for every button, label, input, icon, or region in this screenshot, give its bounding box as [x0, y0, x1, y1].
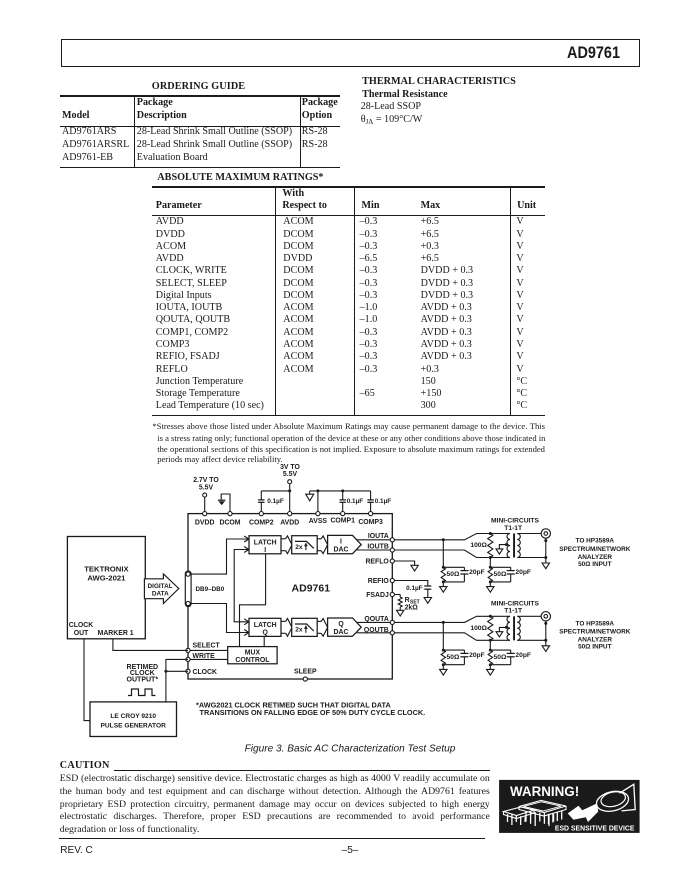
- wire QOUTA: [357, 621, 393, 623]
- wire IOUTA: [357, 539, 393, 541]
- node connector chevron: [286, 619, 292, 637]
- wire secondary bottom (I): [517, 557, 546, 559]
- resistor R 50 ohm / capacitor C 20pF shunt (I x=443.3): [440, 540, 485, 593]
- wire secondary bottom (Q): [517, 639, 546, 641]
- svg-text:5.5V: 5.5V: [283, 471, 298, 478]
- ground AVSS: [306, 491, 314, 501]
- junction secondary bottom (Q): [544, 639, 547, 642]
- svg-text:TO HP3589A: TO HP3589A: [576, 621, 615, 628]
- dac I DAC: [328, 535, 362, 553]
- svg-text:I: I: [264, 547, 266, 554]
- transformer T1-1T core (I): [513, 534, 515, 558]
- filter 2x interpolation Q: [292, 618, 318, 636]
- wire bus top to LATCH I input: [190, 539, 248, 574]
- node connector chevron: [321, 619, 327, 637]
- pin FSADJ: [366, 592, 394, 599]
- transformer T1-1T core (Q): [513, 616, 515, 640]
- svg-text:50Ω: 50Ω: [494, 571, 507, 578]
- wire LATCH Q to 2x filter: [281, 620, 286, 622]
- wire IOUTA to transformer: [394, 534, 510, 540]
- wire latch clock link: [234, 550, 248, 622]
- junction AVSS: [316, 489, 319, 492]
- ground transformer center tap (I): [496, 543, 508, 554]
- svg-text:SPECTRUM/NETWORK: SPECTRUM/NETWORK: [559, 629, 631, 636]
- ground connector (Q): [542, 646, 549, 652]
- svg-text:LATCH: LATCH: [254, 622, 277, 629]
- svg-text:2x: 2x: [295, 626, 303, 633]
- svg-text:DAC: DAC: [334, 546, 349, 553]
- resistor R 50 ohm / capacitor C 20pF shunt (Q x=490.3): [487, 640, 531, 675]
- wire connector shell to ground (I): [544, 538, 547, 563]
- svg-text:20pF: 20pF: [469, 569, 485, 576]
- node connector chevron: [286, 536, 292, 554]
- wire bus bottom to LATCH Q input: [190, 604, 248, 633]
- svg-text:DAC: DAC: [334, 629, 349, 636]
- pin REFLO: [365, 559, 394, 566]
- svg-text:MINI-CIRCUITS: MINI-CIRCUITS: [491, 601, 539, 608]
- latch LATCH Q: [249, 618, 281, 636]
- wire QOUTA to transformer: [394, 616, 510, 622]
- wire QOUTB to transformer: [394, 633, 510, 641]
- pin REFIO: [368, 578, 395, 585]
- capacitor C 0.1uF at COMP3: [367, 491, 391, 514]
- note AWG2021 retiming footnote: [196, 700, 425, 717]
- node LATCH Q data input arrow: [244, 630, 249, 636]
- pin CLOCK: [186, 669, 217, 676]
- svg-text:MARKER 1: MARKER 1: [98, 630, 134, 637]
- svg-text:50Ω: 50Ω: [494, 654, 507, 661]
- junction 100 ohm top (Q): [489, 615, 492, 618]
- svg-text:OUT: OUT: [74, 630, 89, 637]
- block arrow DIGITAL DATA: [144, 574, 178, 604]
- transformer T1-1T secondary (Q): [517, 616, 520, 640]
- connector coax output (I): [541, 529, 550, 538]
- pin QOUTB: [364, 627, 394, 635]
- pin COMP1: [330, 511, 355, 524]
- svg-text:LATCH: LATCH: [254, 540, 277, 547]
- svg-text:COMP3: COMP3: [358, 519, 383, 526]
- pin WRITE: [186, 653, 215, 662]
- svg-text:TEKTRONIX: TEKTRONIX: [84, 565, 129, 574]
- pin DB9-DB0 bus: [185, 571, 224, 607]
- svg-text:0.1µF: 0.1µF: [406, 585, 423, 592]
- wire COMP2 decoupling rail: [261, 490, 289, 492]
- transformer T1-1T primary (Q): [507, 616, 510, 640]
- junction 100 ohm top (I): [489, 532, 492, 535]
- pin AVSS: [309, 511, 328, 525]
- svg-text:LE CROY 9210: LE CROY 9210: [110, 713, 156, 720]
- wire AWG clock out to pulse generator: [84, 639, 90, 721]
- wire retimed clock to WRITE: [166, 659, 188, 702]
- junction AVDD rail: [288, 489, 291, 492]
- svg-text:0.1µF: 0.1µF: [347, 498, 364, 505]
- svg-text:DB9–DB0: DB9–DB0: [196, 586, 225, 593]
- connector coax output (Q): [541, 612, 550, 621]
- pin DCOM: [219, 511, 240, 526]
- pin IOUTA: [368, 533, 395, 542]
- svg-text:QOUTB: QOUTB: [364, 627, 389, 634]
- pin COMP2: [249, 511, 274, 526]
- svg-text:FSADJ: FSADJ: [366, 592, 389, 599]
- pin DVDD: [195, 511, 215, 526]
- transformer T1-1T primary (I): [507, 534, 510, 558]
- pin COMP3: [358, 511, 383, 525]
- label MINI-CIRCUITS T1-1T (Q): [491, 601, 539, 615]
- svg-text:AVSS: AVSS: [309, 518, 328, 525]
- svg-text:MUX: MUX: [245, 650, 261, 657]
- wire MUX CONTROL to LATCH I clock: [240, 554, 266, 647]
- svg-text:I: I: [340, 538, 342, 545]
- svg-text:SLEEP: SLEEP: [294, 669, 317, 676]
- node connector chevron: [321, 536, 327, 554]
- svg-text:QOUTA: QOUTA: [364, 616, 388, 623]
- svg-text:REFLO: REFLO: [365, 559, 389, 566]
- svg-text:2x: 2x: [295, 544, 303, 551]
- junction IOUTA 50 ohm tap: [442, 538, 445, 541]
- svg-text:DCOM: DCOM: [219, 519, 240, 526]
- svg-text:PULSE GENERATOR: PULSE GENERATOR: [101, 722, 167, 729]
- svg-text:DATA: DATA: [152, 591, 169, 598]
- svg-text:50Ω INPUT: 50Ω INPUT: [578, 561, 611, 568]
- junction 100 ohm bottom (I): [489, 556, 492, 559]
- svg-text:AVDD: AVDD: [280, 519, 299, 526]
- label TO HP3589A analyzer (I): [559, 538, 631, 568]
- resistor R 50 ohm / capacitor C 20pF shunt (Q x=443.3): [440, 622, 485, 675]
- filter 2x interpolation I: [292, 536, 318, 554]
- ground REFLO: [394, 561, 418, 571]
- svg-text:0.1µF: 0.1µF: [267, 498, 284, 505]
- svg-text:Q: Q: [338, 621, 344, 628]
- svg-text:IOUTB: IOUTB: [367, 544, 388, 551]
- junction QOUTA 50 ohm tap: [442, 621, 445, 624]
- svg-text:Q: Q: [263, 630, 269, 637]
- wire secondary to connector (I): [517, 533, 541, 535]
- wire IOUTB: [357, 549, 393, 551]
- svg-text:WRITE: WRITE: [193, 653, 216, 660]
- svg-text:TRANSITIONS ON FALLING EDGE OF: TRANSITIONS ON FALLING EDGE OF 50% DUTY …: [200, 708, 426, 717]
- icon lightning bolt: [568, 803, 599, 822]
- icon pointing finger: [594, 784, 635, 814]
- capacitor C 0.1uF at COMP2: [258, 491, 284, 514]
- ground connector (I): [542, 563, 549, 569]
- transformer T1-1T secondary (I): [517, 534, 520, 558]
- svg-text:IOUTA: IOUTA: [368, 533, 389, 540]
- pin AVDD: [280, 511, 299, 526]
- svg-text:CLOCK: CLOCK: [193, 669, 218, 676]
- wire DVDD supply: [204, 497, 206, 513]
- svg-text:50Ω INPUT: 50Ω INPUT: [578, 644, 611, 651]
- instrument LE CROY 9210 PULSE GENERATOR: [90, 702, 177, 737]
- wire SELECT to MUX: [188, 649, 228, 651]
- svg-text:COMP2: COMP2: [249, 519, 274, 526]
- pin SLEEP: [294, 669, 317, 682]
- wire LATCH I to 2x filter: [281, 538, 286, 540]
- wire IOUTB to transformer: [394, 550, 510, 558]
- label TO HP3589A analyzer (Q): [559, 621, 631, 651]
- svg-text:20pF: 20pF: [469, 652, 485, 659]
- capacitor C 0.1uF at REFIO: [394, 581, 431, 604]
- svg-text:CLOCK: CLOCK: [69, 622, 94, 629]
- icon DIP package large: [519, 801, 566, 827]
- svg-text:CONTROL: CONTROL: [235, 657, 269, 664]
- svg-text:20pF: 20pF: [515, 652, 531, 659]
- svg-text:DVDD: DVDD: [195, 519, 215, 526]
- svg-text:T1-1T: T1-1T: [504, 608, 523, 615]
- ground transformer center tap (Q): [496, 626, 508, 637]
- svg-text:SPECTRUM/NETWORK: SPECTRUM/NETWORK: [559, 546, 631, 553]
- supply terminal 2.7V TO 5.5V: [193, 477, 219, 497]
- svg-text:100Ω: 100Ω: [470, 625, 487, 632]
- svg-text:REFIO: REFIO: [368, 578, 390, 585]
- svg-text:MINI-CIRCUITS: MINI-CIRCUITS: [491, 518, 539, 525]
- node LATCH Q clock input arrow: [244, 619, 249, 625]
- ESD warning box: [499, 780, 639, 833]
- svg-text:COMP1: COMP1: [330, 517, 355, 524]
- junction retimed clock: [164, 670, 167, 673]
- IC U1 AD9761 block outline: [188, 514, 392, 679]
- node LATCH I clock input arrow: [244, 547, 249, 553]
- svg-text:100Ω: 100Ω: [470, 542, 487, 549]
- dac Q DAC: [328, 618, 362, 636]
- wire AVSS ground rail: [310, 491, 371, 514]
- svg-text:AD9761: AD9761: [292, 582, 331, 594]
- ground DCOM digital ground: [218, 494, 230, 514]
- wire WRITE to MUX: [188, 658, 228, 660]
- capacitor C 0.1uF at COMP1: [340, 491, 364, 514]
- wire 2x filter to I DAC: [317, 538, 321, 540]
- wire QOUTB: [357, 632, 393, 634]
- wire MUX CONTROL to LATCH Q: [263, 636, 265, 646]
- label MINI-CIRCUITS T1-1T (I): [491, 518, 539, 532]
- wire 2x filter to Q DAC: [317, 620, 321, 622]
- svg-text:DIGITAL: DIGITAL: [148, 583, 173, 590]
- svg-text:AWG-2021: AWG-2021: [87, 574, 126, 583]
- wire AWG marker 1 to SELECT: [113, 639, 188, 651]
- svg-text:T1-1T: T1-1T: [504, 525, 523, 532]
- junction secondary bottom (I): [544, 556, 547, 559]
- svg-text:5.5V: 5.5V: [199, 485, 214, 492]
- wire AVDD supply: [289, 484, 291, 514]
- svg-text:20pF: 20pF: [515, 569, 531, 576]
- resistor R 50 ohm / capacitor C 20pF shunt (I x=490.3): [487, 558, 531, 593]
- block MUX CONTROL: [228, 647, 277, 664]
- svg-text:Figure 3. Basic AC Characteriz: Figure 3. Basic AC Characterization Test…: [245, 744, 456, 755]
- wire retimed clock to CLOCK: [166, 670, 188, 672]
- svg-text:ESD SENSITIVE DEVICE: ESD SENSITIVE DEVICE: [555, 825, 635, 832]
- label RETIMED CLOCK OUTPUT*: [127, 664, 159, 684]
- resistor RSET 2k ohm at FSADJ: [394, 595, 419, 617]
- svg-text:SELECT: SELECT: [193, 643, 221, 650]
- supply terminal 3V TO 5.5V: [280, 464, 300, 484]
- wire connector shell to ground (Q): [544, 621, 547, 646]
- pin SELECT: [186, 643, 221, 653]
- clock waveform symbol: [128, 689, 156, 696]
- svg-text:50Ω: 50Ω: [447, 571, 460, 578]
- pin QOUTA: [364, 616, 394, 625]
- junction 100 ohm bottom (Q): [489, 639, 492, 642]
- svg-text:OUTPUT*: OUTPUT*: [127, 677, 159, 684]
- svg-text:50Ω: 50Ω: [447, 654, 460, 661]
- svg-text:2.7V TO: 2.7V TO: [193, 477, 219, 484]
- pin IOUTB: [367, 544, 394, 553]
- instrument TEKTRONIX AWG-2021: [67, 537, 145, 639]
- node LATCH I data input arrow: [244, 536, 249, 542]
- icon DIP package small: [504, 807, 535, 825]
- svg-text:0.1µF: 0.1µF: [375, 498, 392, 505]
- svg-text:2kΩ: 2kΩ: [405, 605, 419, 612]
- junction COMP1: [341, 489, 344, 492]
- svg-text:R: R: [405, 597, 410, 604]
- resistor R 100 ohm (I): [488, 534, 493, 558]
- svg-text:TO HP3589A: TO HP3589A: [576, 538, 615, 545]
- wire secondary to connector (Q): [517, 615, 541, 617]
- resistor R 100 ohm (Q): [488, 616, 493, 640]
- latch LATCH I: [249, 536, 281, 554]
- svg-text:WARNING!: WARNING!: [510, 784, 579, 799]
